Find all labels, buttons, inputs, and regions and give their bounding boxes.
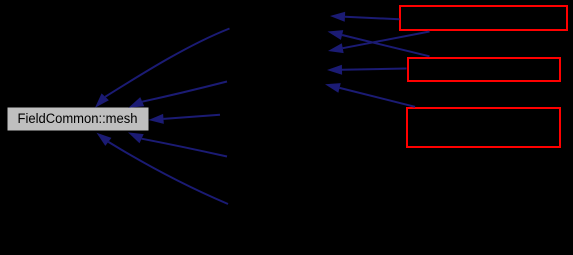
edge C: third node -> FieldCommon::mesh (horizontal)	[149, 114, 221, 124]
edge L2: box2 top -> middle node 2 (crossing diagonal)	[328, 30, 430, 56]
edge L1: box1 -> middle node 1 (horizontal)	[330, 12, 400, 22]
edge L5: box3 -> middle node 5 (diagonal)	[325, 83, 415, 107]
svg-text:FieldCommon::mesh: FieldCommon::mesh	[18, 111, 138, 127]
edge L4: box2 -> middle node 4 (horizontal)	[327, 65, 407, 75]
node box3 (red, bottom right, two-line)	[407, 108, 560, 147]
node box1 (red, top right)	[400, 6, 567, 30]
edge B: second node -> FieldCommon::mesh	[129, 82, 228, 108]
edge A: top node -> FieldCommon::mesh (long top curve)	[95, 29, 230, 108]
edge D: bottom node -> FieldCommon::mesh (long bottom curve)	[97, 133, 229, 204]
node box2 (red, middle right)	[408, 58, 560, 81]
edge L3: box1 bottom -> middle node 3 (crossing diagonal)	[328, 32, 430, 54]
node FieldCommon::mesh (grey current node)	[8, 108, 149, 131]
edge E: fourth node -> FieldCommon::mesh	[128, 132, 227, 156]
